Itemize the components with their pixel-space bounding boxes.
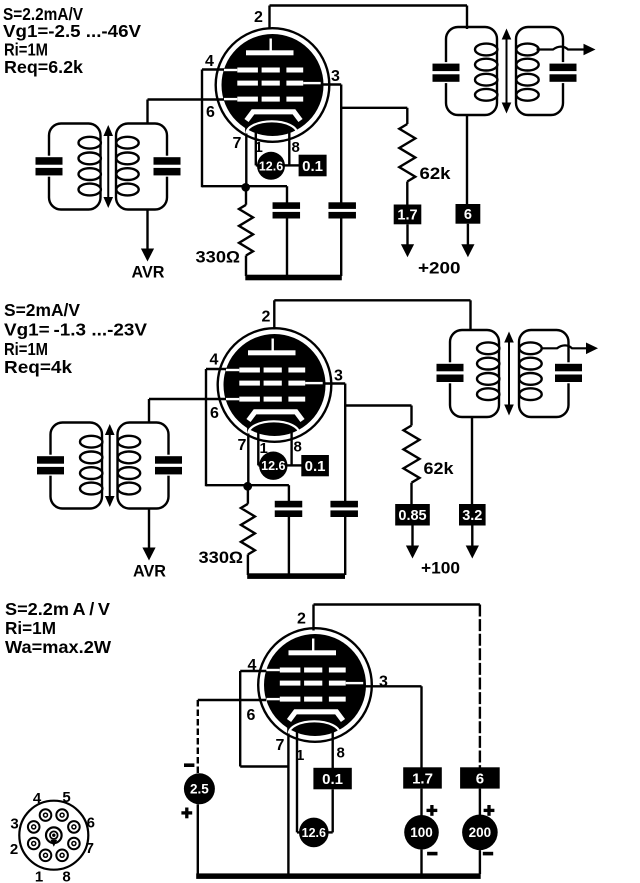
heater pin 1 lead (section 3) <box>296 731 298 832</box>
wire transformer T4 primary to 3.2 box (section 2) <box>471 416 473 505</box>
T4 secondary winding former (right box) <box>519 330 569 417</box>
wire 6 box to 200V battery (section 3) <box>479 789 481 816</box>
tube V2 g2 (screen grid) dashes <box>239 381 260 386</box>
svg-text:AVR: AVR <box>132 264 165 282</box>
wire pin3 down to screen bypass cap C2 (section 1) <box>340 85 342 204</box>
wire 200V battery to ground rail (section 3) <box>479 850 481 874</box>
ground return rail (section 3) <box>196 873 481 879</box>
svg-text:2: 2 <box>10 841 18 858</box>
T4 primary winding former (left box) <box>450 330 499 417</box>
svg-text:4: 4 <box>248 657 257 674</box>
tube V3 anode lead <box>312 639 314 651</box>
heater pin 8 lead (section 2) <box>290 430 292 465</box>
svg-text:100: 100 <box>410 825 433 840</box>
svg-text:6: 6 <box>464 207 472 223</box>
wire branch to screen resistor 62k (section 2) <box>345 404 411 406</box>
wire heater circle to 0.1 box (section 2) <box>287 464 303 466</box>
wire T3 secondary top to grid (section 2) <box>148 399 150 424</box>
wire pin2 to anode rail (section 1) <box>268 6 270 30</box>
tube V1 g2 internal lead (right) <box>303 82 321 84</box>
svg-text:Wa=max.2W: Wa=max.2W <box>5 637 111 657</box>
svg-text:2: 2 <box>297 611 306 628</box>
heater voltage indicator 12.6 V (section 3) <box>299 818 329 848</box>
wire grid bias input to g1 pin 6 (section 3) <box>198 699 266 701</box>
wire junction to cathode bypass cap C1 (section 1) <box>246 185 287 187</box>
T3 primary coil loops <box>80 436 102 448</box>
svg-text:8: 8 <box>337 745 345 762</box>
svg-text:2.5: 2.5 <box>190 782 209 797</box>
T3 secondary winding former (right box) <box>118 423 169 509</box>
wire 1.7 box to 100V battery (section 3) <box>420 789 422 816</box>
cathode junction node (section 1) <box>241 183 250 192</box>
wire pin2 to anode rail (section 3) <box>312 605 314 631</box>
T1 secondary tuning capacitor <box>164 156 170 177</box>
wire g3 pin4 down (section 3) <box>239 671 241 767</box>
arrow to +200 from 6 (section 1) <box>467 224 469 246</box>
socket pin 7 <box>68 838 80 850</box>
anode supply rail top (section 3) <box>314 603 480 605</box>
T2 secondary winding former (right box) <box>516 27 563 115</box>
screen feed resistor 62k (section 2) <box>404 426 420 483</box>
T1 primary coil loops <box>79 137 101 149</box>
output wire with arrow (section 2) <box>541 345 587 348</box>
T2 primary tuning capacitor <box>443 62 449 83</box>
tube V2 g3 internal lead (left) <box>226 369 239 371</box>
tube V3 cathode <box>289 712 343 721</box>
plus label of 100V battery <box>427 809 438 812</box>
wire cathode pin 7 to ground rail (section 3) <box>287 719 289 874</box>
tube V2 anode plate <box>248 350 296 355</box>
output wire with arrow (section 1) <box>537 47 586 50</box>
svg-text:0.1: 0.1 <box>302 158 323 175</box>
grid bias battery wire upper (section 3) <box>197 700 199 773</box>
tube V2 envelope (black disk) <box>224 334 326 436</box>
screen battery 100 V (section 3) <box>404 815 439 850</box>
arrow to +100 from 3.2 (section 2) <box>471 526 473 548</box>
svg-text:1: 1 <box>255 139 263 156</box>
wire pin3 down to 1.7 box (section 3) <box>420 686 422 768</box>
minus label of 200V battery <box>483 852 493 856</box>
wire g3 pin 4 horizontal (section 2) <box>206 368 231 370</box>
tube V2 g2 internal lead (right) <box>305 382 323 384</box>
svg-text:4: 4 <box>210 352 219 369</box>
svg-text:3: 3 <box>334 368 343 385</box>
svg-text:1.7: 1.7 <box>412 770 433 787</box>
T1 tuning arrow (variable coupling) <box>107 132 109 202</box>
svg-text:Ri=1M: Ri=1M <box>4 339 48 359</box>
tube V3 envelope (black disk) <box>264 634 366 736</box>
tube V1 cathode <box>247 112 301 121</box>
screen current box 1.7 mA (section 3) <box>403 767 442 788</box>
wire T1 secondary bottom to AVR (section 1) <box>146 209 148 250</box>
tube V1 g1 internal lead (left) <box>224 98 237 100</box>
svg-text:4: 4 <box>205 53 214 70</box>
svg-text:200: 200 <box>469 825 492 840</box>
wire g3 pin4 to cathode junction vertical (section 2) <box>205 369 207 486</box>
heater pin 1 lead (section 2) <box>257 430 259 465</box>
heater pin 1 lead (section 1) <box>255 130 257 165</box>
minus label of 2.5V bias battery <box>184 763 194 767</box>
wire cathode pin 7 lead (section 1) <box>245 118 247 187</box>
svg-text:6: 6 <box>87 815 95 832</box>
T3 primary winding former (left box) <box>51 423 103 509</box>
T1 primary tuning capacitor <box>46 156 52 177</box>
svg-text:Vg1=-2.5 ...-46V: Vg1=-2.5 ...-46V <box>3 21 141 41</box>
socket center spigot <box>46 827 62 843</box>
svg-text:3: 3 <box>331 68 340 85</box>
anode current box 3.2 mA (section 2) <box>459 504 486 526</box>
wire g3 pin 4 horizontal (section 1) <box>202 68 227 70</box>
tube V3 g3 (suppressor grid) dashes <box>280 668 301 673</box>
tube V1 glass envelope ring <box>216 28 330 142</box>
socket pin 5 <box>56 809 68 821</box>
T2 secondary coil loops <box>516 44 538 56</box>
screen current box 0.85 mA (section 2) <box>395 504 430 526</box>
svg-text:Req=4k: Req=4k <box>4 357 72 377</box>
svg-text:4: 4 <box>33 790 42 807</box>
T2 primary coil loops <box>475 44 497 56</box>
wire pin2 to anode rail (section 2) <box>273 300 275 329</box>
screen current box 1.7 mA (section 1) <box>394 205 422 225</box>
tube V1 g2 (screen grid) dashes <box>237 81 258 86</box>
svg-text:330Ω: 330Ω <box>196 249 241 267</box>
T4 primary tuning capacitor <box>447 362 453 383</box>
tube V2 g1 internal lead (left) <box>226 398 239 400</box>
plus label of 2.5V bias battery <box>181 811 192 814</box>
svg-text:12.6: 12.6 <box>259 159 283 173</box>
svg-text:Ri=1M: Ri=1M <box>5 618 56 638</box>
chassis ground rail (section 1) <box>245 275 341 281</box>
tube V3 heater dome <box>289 721 340 733</box>
socket pin 3 <box>28 821 40 833</box>
anode current box 6 mA (section 3) <box>460 767 500 788</box>
svg-text:6: 6 <box>206 104 215 121</box>
tube V2 anode lead <box>272 339 274 351</box>
anode current box 6 mA (section 1) <box>456 204 481 224</box>
cathode junction node (section 2) <box>243 482 252 491</box>
T2 tuning arrow (variable coupling) <box>506 35 508 107</box>
grid bias battery 2.5 V (section 3) <box>184 773 215 804</box>
socket pin 4 <box>40 809 52 821</box>
T1 primary winding former (left box) <box>49 124 101 210</box>
screen feed resistor R2 62k (section 1) <box>399 124 415 182</box>
T2 primary winding former (left box) <box>446 27 497 115</box>
heater current indicator 0.1 A (section 1) <box>299 155 327 177</box>
svg-text:3: 3 <box>379 674 388 691</box>
wire g2 pin 3 horizontal (section 1) <box>318 83 341 85</box>
tube V1 heater dome <box>246 121 297 133</box>
plus label of 200V battery <box>484 809 495 812</box>
T4 tuning arrow (variable coupling) <box>508 338 510 409</box>
T4 secondary tuning capacitor <box>566 362 572 383</box>
svg-text:S=2.2m A / V: S=2.2m A / V <box>5 599 110 619</box>
wire junction to cathode bypass cap (section 2) <box>248 484 289 486</box>
tube V2 glass envelope ring <box>218 328 332 442</box>
svg-text:1.7: 1.7 <box>397 208 417 224</box>
svg-text:0.1: 0.1 <box>322 771 343 788</box>
chassis ground rail (section 2) <box>247 573 345 579</box>
svg-text:8: 8 <box>62 869 70 883</box>
svg-text:62k: 62k <box>424 460 455 478</box>
wire heater circle to 0.1 box (section 1) <box>284 164 300 166</box>
svg-text:3: 3 <box>10 816 18 833</box>
wire 100V battery to ground rail (section 3) <box>420 850 422 874</box>
heater pin 8 lead (section 1) <box>288 130 290 165</box>
svg-text:8: 8 <box>294 439 302 456</box>
tube V1 g1 (control grid) dashes <box>237 97 258 102</box>
svg-text:330Ω: 330Ω <box>199 549 244 567</box>
tube V2 g3 (suppressor grid) dashes <box>239 368 260 373</box>
tube V3 g1 internal lead (left) <box>267 698 280 700</box>
svg-text:+100: +100 <box>421 559 460 578</box>
wire rail down to 6 mA box (section 3) <box>479 605 481 769</box>
cathode bypass capacitor C1 (section 1) <box>273 202 301 209</box>
T2 secondary tuning capacitor <box>560 62 566 83</box>
T3 secondary coil loops <box>118 436 140 448</box>
cathode resistor 330 ohm (section 2) <box>247 490 249 504</box>
cathode bypass capacitor (section 2) <box>275 501 303 508</box>
wire g3 line to cathode junction horizontal (section 2) <box>206 484 248 486</box>
T3 secondary tuning capacitor <box>166 455 172 476</box>
heater pin 8 lead below 0.1 box (section 3) <box>332 789 334 832</box>
socket pin 1 <box>40 850 52 862</box>
heater pin 8 lead above 0.1 box (section 3) <box>332 731 334 768</box>
svg-text:3.2: 3.2 <box>462 508 482 524</box>
heater current indicator 0.1 A (section 2) <box>301 455 329 476</box>
arrow to +200 from 1.7 (section 1) <box>406 224 408 246</box>
svg-text:S=2mA/V: S=2mA/V <box>4 300 80 320</box>
T1 secondary winding former (right box) <box>116 124 167 210</box>
socket pin 8 <box>56 850 68 862</box>
anode supply rail top (section 2) <box>274 299 470 301</box>
wire g3 line to cathode junction horizontal (section 1) <box>202 185 246 187</box>
wire g2 pin 3 horizontal (section 3) <box>360 685 422 687</box>
wire input transformer to g1 pin 6 (section 1) <box>148 98 228 100</box>
anode supply rail top (section 1) <box>270 4 468 6</box>
svg-text:Vg1= -1.3 ...-23V: Vg1= -1.3 ...-23V <box>4 320 147 340</box>
tube V3 anode plate <box>289 650 337 655</box>
tube V3 g3 internal lead (left) <box>267 669 280 671</box>
tube V3 g2 (screen grid) dashes <box>280 681 301 686</box>
tube V2 cathode <box>249 412 303 421</box>
wire transformer T2 primary to 6 box (section 1) <box>466 114 468 205</box>
svg-text:62k: 62k <box>420 165 452 183</box>
screen bypass capacitor (section 2) <box>330 501 358 508</box>
svg-text:6: 6 <box>247 707 256 724</box>
heater current box 0.1 A (section 3) <box>313 768 351 790</box>
tube V2 heater dome <box>248 421 299 433</box>
svg-text:AVR: AVR <box>133 563 166 581</box>
svg-text:Req=6.2k: Req=6.2k <box>4 57 83 77</box>
tube V1 anode lead <box>270 39 272 51</box>
svg-text:7: 7 <box>276 737 285 754</box>
svg-text:12.6: 12.6 <box>261 459 285 473</box>
heater voltage indicator 12.6 V (section 1) <box>257 152 285 180</box>
svg-text:0.1: 0.1 <box>305 458 326 475</box>
wire pin3 down to screen bypass cap (section 2) <box>344 384 346 502</box>
wire g3 to cathode strap horizontal (section 3) <box>240 765 288 767</box>
T4 secondary coil loops <box>519 342 541 354</box>
tube V1 g3 internal lead (left) <box>224 69 237 71</box>
tube V3 glass envelope ring <box>258 628 372 742</box>
arrow to +100 from 0.85 (section 2) <box>411 526 413 548</box>
svg-text:7: 7 <box>238 437 247 454</box>
svg-text:7: 7 <box>233 135 242 152</box>
tube V1 g3 (suppressor grid) dashes <box>237 68 258 73</box>
tube V1 anode plate <box>246 50 294 55</box>
svg-text:0.85: 0.85 <box>398 508 426 524</box>
tube socket outline (bottom view) <box>19 801 88 870</box>
tube V2 g1 (control grid) dashes <box>239 397 260 402</box>
tube V1 envelope (black disk) <box>222 34 324 136</box>
wire g3 pin 4 horizontal (section 3) <box>240 670 266 672</box>
wire branch to screen resistor 62k (section 1) <box>341 107 407 109</box>
T3 primary tuning capacitor <box>48 455 54 476</box>
wire T3 secondary bottom to AVR (section 2) <box>148 508 150 549</box>
wire T1 secondary top to grid (section 1) <box>146 100 148 125</box>
wire g3 pin4 to cathode junction vertical (section 1) <box>201 70 203 188</box>
cathode resistor R1 330 ohm (section 1) <box>245 191 247 205</box>
wire rail down to transformer T4 primary (section 2) <box>469 300 471 330</box>
svg-text:6: 6 <box>476 770 484 787</box>
T4 primary coil loops <box>477 342 499 354</box>
svg-text:1: 1 <box>35 869 43 883</box>
screen bypass capacitor C2 (section 1) <box>328 202 356 209</box>
wire rail down to transformer T2 primary (section 1) <box>466 6 468 30</box>
svg-text:6: 6 <box>210 405 219 422</box>
heater voltage indicator 12.6 V (section 2) <box>259 452 287 480</box>
svg-text:8: 8 <box>292 139 300 156</box>
svg-text:+200: +200 <box>418 259 461 278</box>
wire input transformer to g1 pin 6 (section 2) <box>149 398 229 400</box>
minus label of 100V battery <box>427 852 437 856</box>
grid bias battery wire lower (section 3) <box>197 804 199 876</box>
svg-text:2: 2 <box>262 309 271 326</box>
anode battery 200 V (section 3) <box>462 815 498 851</box>
socket pin 2 <box>28 838 40 850</box>
svg-text:12.6: 12.6 <box>302 826 326 840</box>
tube V3 g2 internal lead (right) <box>346 682 364 684</box>
svg-text:5: 5 <box>62 789 70 806</box>
socket pin 6 <box>68 821 80 833</box>
svg-text:2: 2 <box>254 9 263 26</box>
T3 tuning arrow (variable coupling) <box>109 431 111 501</box>
wire g2 pin 3 horizontal (section 2) <box>320 382 345 384</box>
tube V3 g1 (control grid) dashes <box>280 697 301 702</box>
wire cathode pin 7 lead (section 2) <box>247 418 249 486</box>
svg-text:1: 1 <box>296 747 304 764</box>
svg-text:7: 7 <box>86 840 94 857</box>
T1 secondary coil loops <box>116 137 138 149</box>
